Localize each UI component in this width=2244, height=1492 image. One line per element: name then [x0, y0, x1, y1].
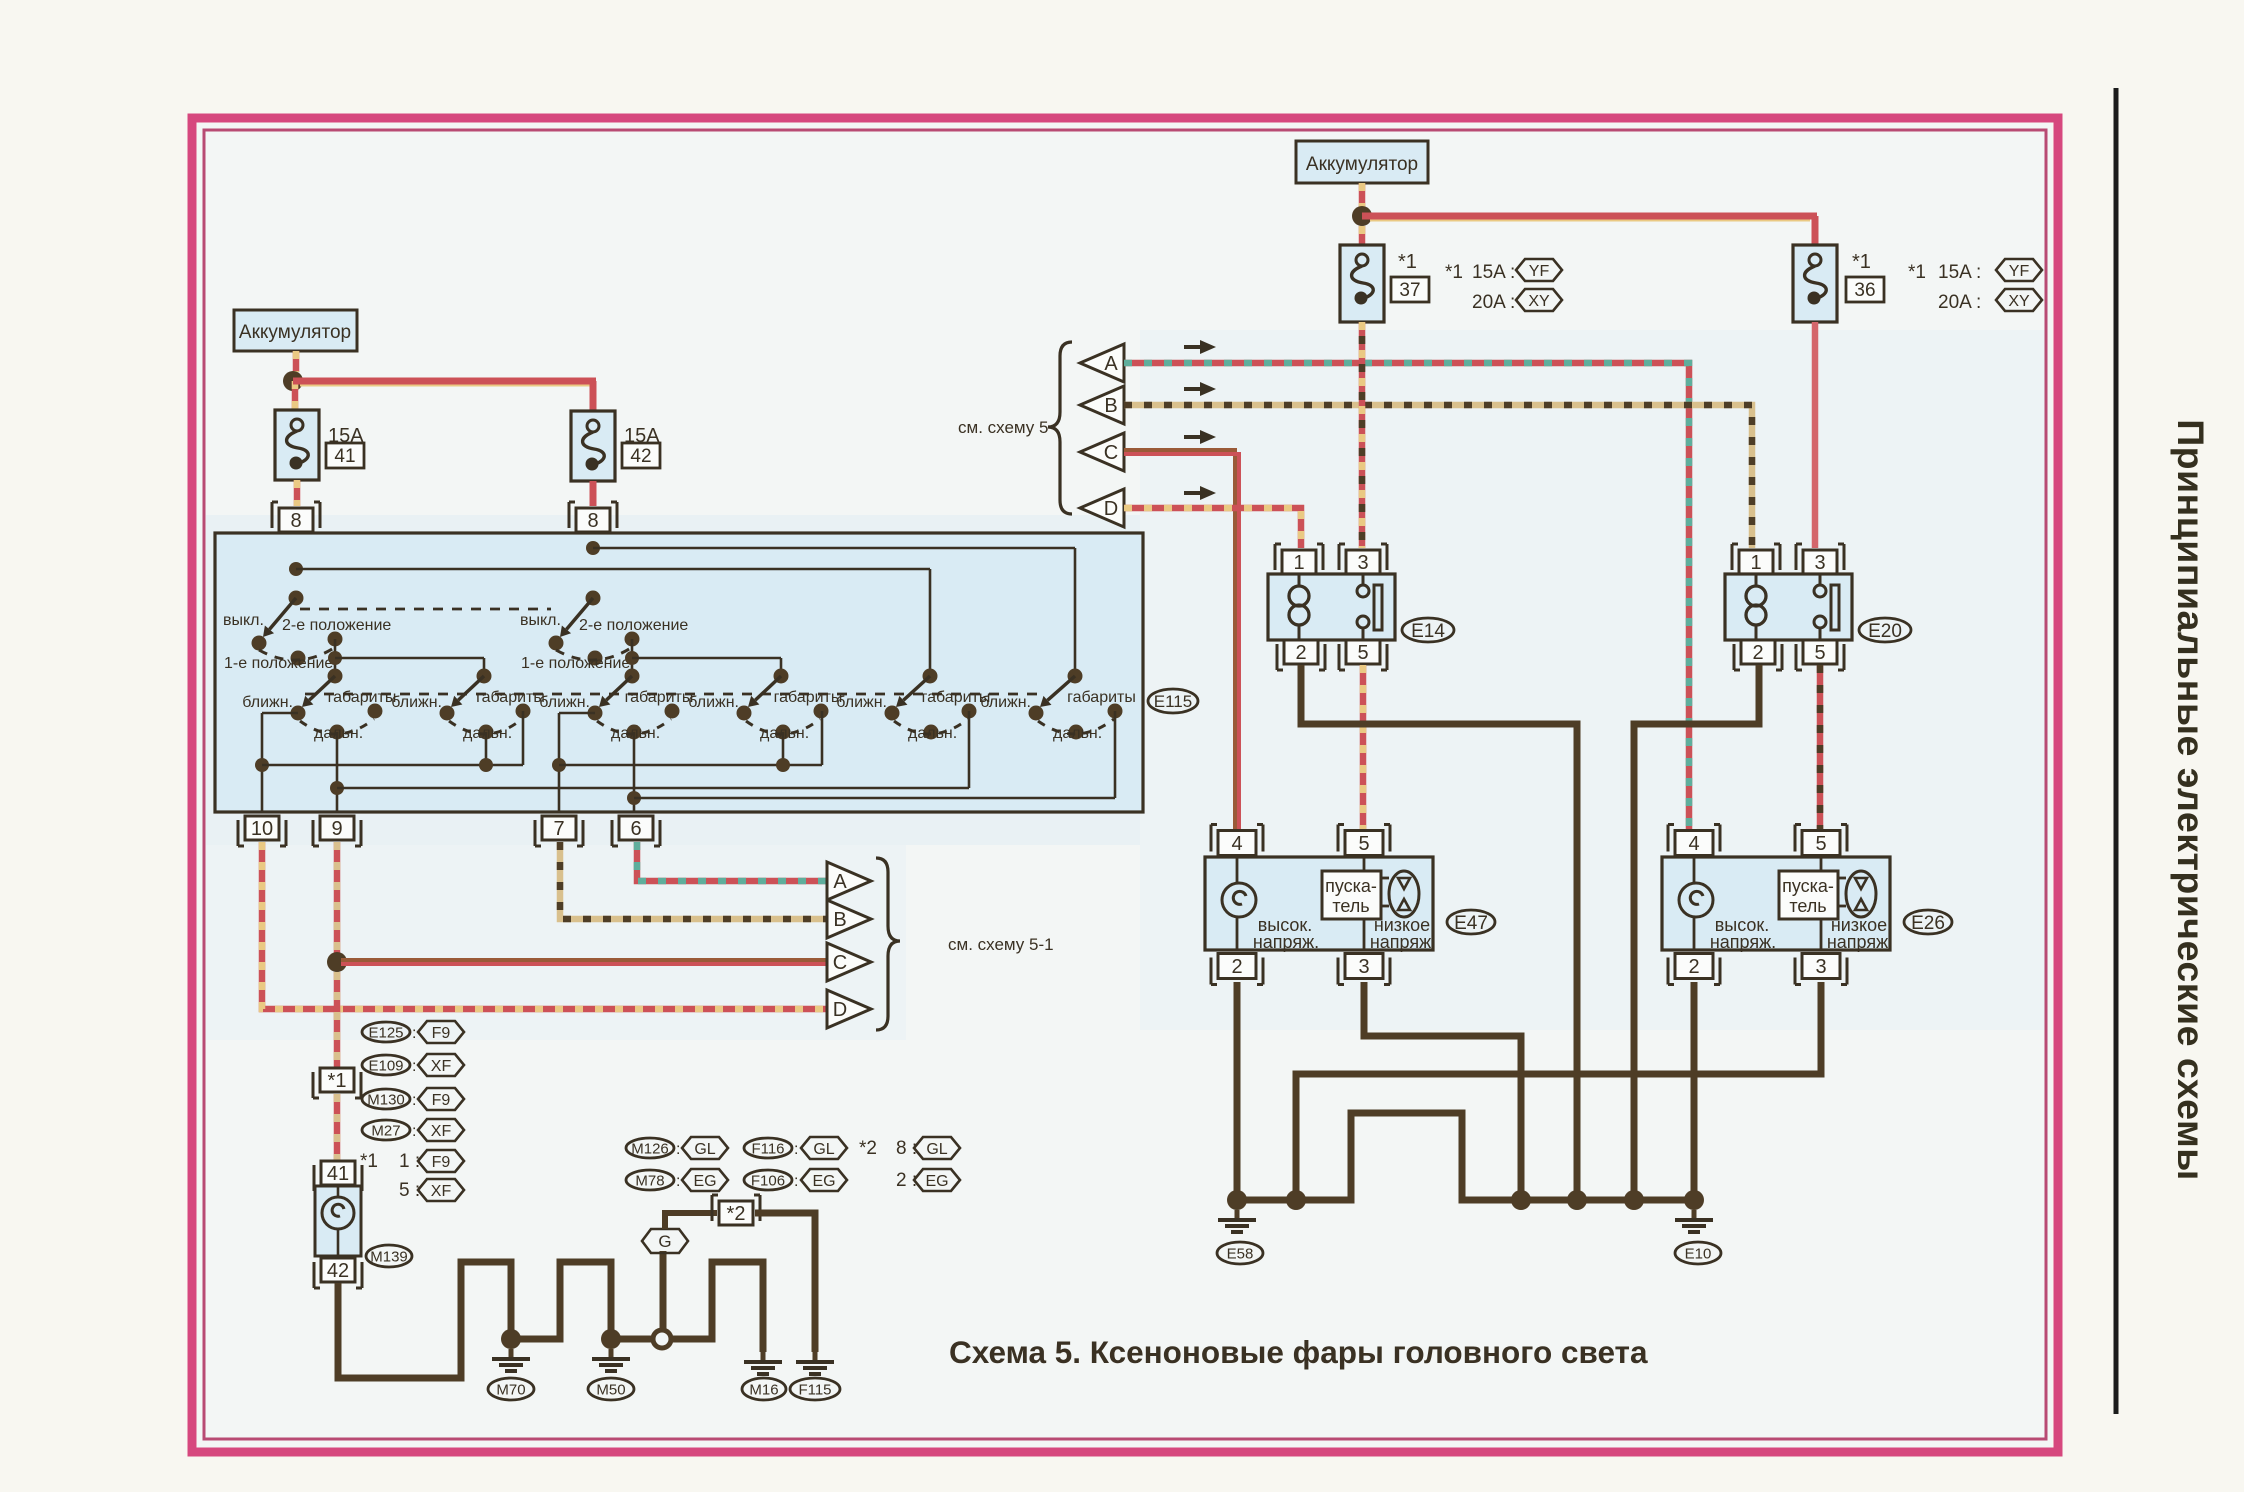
svg-text:M139: M139 [370, 1248, 408, 1265]
dashed throw arc upper switch [556, 646, 634, 660]
contact 2-е положение [328, 632, 343, 647]
svg-text:C: C [1104, 442, 1118, 464]
group 3 contact габариты [665, 704, 680, 719]
group 4 contact ближн. [737, 706, 752, 721]
svg-text:2-е положение: 2-е положение [579, 617, 688, 634]
xenon unit E26 box [1662, 857, 1890, 950]
svg-text:выкл.: выкл. [520, 612, 561, 629]
wire connector 8 into switch unit [295, 532, 298, 598]
node on connector6 column [627, 791, 641, 805]
svg-text:пуска-: пуска- [1325, 876, 1377, 896]
svg-text:E20: E20 [1868, 621, 1902, 642]
svg-text:F9: F9 [432, 1154, 451, 1171]
svg-text:2: 2 [1295, 642, 1306, 664]
svg-text:37: 37 [1399, 280, 1420, 301]
svg-text:M16: M16 [749, 1381, 778, 1398]
connector 42 of lamp M139 [321, 1258, 355, 1282]
svg-text:1: 1 [1293, 552, 1304, 574]
svg-text:E10: E10 [1685, 1245, 1712, 1262]
relay E14 label [1402, 618, 1454, 642]
wire connector 9 down (striped red/tan) [334, 842, 341, 962]
reference E109 : XF [362, 1055, 410, 1075]
svg-text:ближн.: ближн. [836, 694, 887, 711]
svg-text:6: 6 [630, 818, 641, 840]
svg-text:GL: GL [813, 1141, 834, 1158]
connector pin 8 (left column) [279, 508, 313, 532]
relay E20 label [1859, 618, 1911, 642]
svg-text:2: 2 [1231, 956, 1242, 978]
wire 2-е contact to group3 pivot [631, 639, 634, 676]
reference M130 : F9 [362, 1089, 410, 1109]
relay E14 pin 5 [1346, 640, 1380, 664]
group 6 contact ближн. [1029, 706, 1044, 721]
svg-text:M130: M130 [367, 1091, 405, 1108]
svg-text:E109: E109 [368, 1057, 403, 1074]
label E10 [1675, 1242, 1721, 1264]
wire fuse 42 to connector 8 right [590, 481, 597, 506]
ground bus node E20-2 column [1624, 1190, 1644, 1210]
wire ring up to G node [660, 1251, 667, 1330]
svg-text:4: 4 [1231, 833, 1242, 855]
group 4 contact дальн. [776, 725, 791, 740]
svg-text:2: 2 [1752, 642, 1763, 664]
relay E20 coil [1755, 574, 1758, 585]
wire A to xenon unit E26 pin 4 (striped red/teal) [1124, 363, 1689, 830]
svg-text:XF: XF [431, 1183, 452, 1200]
connector pin 7 [542, 816, 576, 840]
svg-text:5: 5 [1357, 642, 1368, 664]
svg-text:пуска-: пуска- [1782, 876, 1834, 896]
fuse F37 number box 37 [1391, 277, 1429, 302]
wire M70 to M50 [517, 1262, 611, 1339]
svg-text:дальн.: дальн. [1053, 725, 1102, 742]
open junction ring [653, 1330, 671, 1348]
connector pin 10 [245, 816, 279, 840]
svg-text:F115: F115 [798, 1381, 831, 1398]
wire junction to triangle C (red/brown pair) [341, 958, 826, 962]
wire *2 to F115 ground [755, 1213, 815, 1352]
svg-text:A: A [833, 871, 847, 893]
svg-text:*2: *2 [859, 1138, 877, 1159]
svg-text:1-е положение: 1-е положение [521, 655, 630, 672]
svg-text:*1: *1 [1398, 251, 1417, 273]
xenon E47 igniter box (пускатель) [1363, 857, 1366, 871]
junction node right battery [1352, 206, 1372, 226]
ground symbol F115 [813, 1352, 818, 1361]
xenon unit E26 pin 5 [1802, 831, 1840, 856]
svg-text::: : [676, 1173, 680, 1190]
svg-text:F106: F106 [751, 1172, 785, 1189]
node дальн-g2 on bus [479, 758, 493, 772]
svg-text:15A :: 15A : [1472, 262, 1515, 283]
wire E47 pin3 to ground bus [1364, 982, 1521, 1200]
connector *1 [320, 1068, 354, 1092]
group 1 contact габариты [368, 704, 383, 719]
svg-text:2: 2 [1688, 956, 1699, 978]
diagram inner background [197, 123, 2052, 1448]
connector *2 [719, 1201, 753, 1225]
svg-text:8: 8 [587, 510, 598, 532]
svg-text:напряж.: напряж. [1253, 932, 1319, 952]
ground symbol E10 [1692, 1210, 1697, 1219]
bus to group4 pivot [632, 657, 781, 660]
svg-text:GL: GL [694, 1141, 715, 1158]
group 5 dashed throw arc [894, 719, 968, 734]
svg-text:тель: тель [1332, 896, 1369, 916]
svg-text:42: 42 [630, 446, 651, 467]
svg-text::: : [676, 1141, 680, 1158]
svg-text:дальн.: дальн. [611, 725, 660, 742]
group 3 dashed throw arc [597, 719, 671, 734]
light switch unit E115 box [215, 533, 1143, 812]
sidebar separator line [2114, 88, 2119, 1414]
relay E14 pin 1 [1282, 550, 1316, 574]
xenon E26 lamp symbol [1693, 857, 1696, 883]
svg-text:напряж.: напряж. [1827, 932, 1893, 952]
svg-text:Аккумулятор: Аккумулятор [1306, 154, 1418, 175]
ground symbol M16 [761, 1352, 766, 1361]
ground bus node E14-2 column [1567, 1190, 1587, 1210]
svg-text:41: 41 [327, 1163, 349, 1185]
curly brace for outputs A-D [876, 858, 900, 1030]
label F115 [790, 1378, 840, 1400]
wire fuse 37 to relay E14 pin 3 (striped red/yellow/black) [1359, 322, 1366, 548]
connector pin 9 [320, 816, 354, 840]
relay E14 pin 3 [1346, 550, 1380, 574]
svg-text:E125: E125 [368, 1024, 403, 1041]
svg-text:габариты: габариты [1067, 689, 1136, 706]
xenon unit E26 pin 4 [1675, 831, 1713, 856]
xenon E26 arc tube symbol [1846, 871, 1876, 917]
svg-text::: : [412, 1123, 416, 1140]
connector pin 6 [619, 816, 653, 840]
fuse F42 [571, 411, 615, 481]
wire E47 pin2 to ground E58 [1234, 982, 1241, 1200]
group 2 dashed throw arc [449, 719, 522, 734]
bus ближн-g3 / дальн-g4 / габариты-g4 [559, 764, 822, 767]
xenon unit E26 pin 3 [1802, 954, 1840, 979]
svg-text:20A :: 20A : [1938, 292, 1981, 313]
parking lamp M139 box [315, 1186, 361, 1256]
wire fuse 41 to connector 8 left [294, 480, 301, 506]
ground symbol E58 [1235, 1210, 1240, 1219]
headlamp switch group 1 pivot [328, 669, 343, 684]
fuse F42 number box 42 [622, 443, 660, 468]
label E58 [1217, 1242, 1263, 1264]
group 6 contact габариты [1108, 704, 1123, 719]
svg-text:8: 8 [290, 510, 301, 532]
svg-text:габариты: габариты [328, 689, 397, 706]
svg-text:36: 36 [1854, 280, 1875, 301]
xenon unit E47 pin 2 [1218, 954, 1256, 979]
svg-text:F9: F9 [432, 1025, 451, 1042]
svg-text:1: 1 [1750, 552, 1761, 574]
relay E20 pin 3 [1803, 550, 1837, 574]
wire relay E14 pin5 to xenon E47 pin5 (striped red/yellow) [1360, 665, 1367, 830]
fuse F37 [1340, 245, 1384, 322]
svg-text:XY: XY [2008, 293, 2030, 310]
wire ближн group1 to connector 10 column [262, 712, 298, 715]
wire 2-е contact to group1 pivot [334, 639, 337, 676]
ground bus node E10 column [1684, 1190, 1704, 1210]
direction arrow wire B [1184, 387, 1202, 391]
headlamp switch group 6 pivot [1068, 669, 1083, 684]
svg-text:Схема 5. Ксеноновые фары голов: Схема 5. Ксеноновые фары головного света [949, 1334, 1648, 1370]
bus ближн-g1 / дальн-g2 / габариты-g2 [262, 764, 523, 767]
wire дальн group2 down to bus [485, 732, 488, 765]
group 4 dashed throw arc [746, 719, 820, 734]
group 3 contact ближн. [588, 706, 603, 721]
battery box left (Аккумулятор) [234, 310, 357, 351]
svg-text:ближн.: ближн. [539, 694, 590, 711]
wire junction to fuse 36 (red) [1362, 213, 1817, 220]
bus to group2 pivot [335, 657, 484, 660]
svg-text::: : [412, 1058, 416, 1075]
contact 2-е положение [625, 632, 640, 647]
group 4 contact габариты [814, 704, 829, 719]
svg-text:9: 9 [331, 818, 342, 840]
svg-text:1-е положение: 1-е положение [224, 655, 333, 672]
bus дальн-g1 to габариты-g5 [337, 787, 969, 790]
svg-text:M78: M78 [635, 1172, 664, 1189]
node on column 8-left [289, 562, 303, 576]
relay E20 box [1725, 574, 1852, 640]
svg-text:5: 5 [1358, 833, 1369, 855]
svg-text:ближн.: ближн. [980, 694, 1031, 711]
ground symbol M50 [609, 1349, 614, 1358]
svg-text:15A :: 15A : [1938, 262, 1981, 283]
svg-text:YF: YF [1529, 263, 1550, 280]
relay E14 box [1268, 574, 1395, 640]
group 6 dashed throw arc [1038, 719, 1114, 734]
upper switch pivot (column x=296) [289, 591, 304, 606]
wire дальн group3 to connector 6 column [633, 732, 636, 812]
ground wire path from 42 to M70 [338, 1262, 511, 1378]
svg-text::: : [412, 1025, 416, 1042]
wire connector 7 to triangle B (striped tan/black) [560, 842, 826, 919]
svg-text:ближн.: ближн. [391, 694, 442, 711]
svg-text:габариты: габариты [774, 689, 843, 706]
headlamp switch group 4 pivot [774, 669, 789, 684]
group 6 contact дальн. [1069, 725, 1084, 740]
wire junction to fuse 37 [1359, 226, 1366, 245]
svg-text:XY: XY [1528, 293, 1550, 310]
svg-text:3: 3 [1814, 552, 1825, 574]
battery box right (Аккумулятор) [1296, 141, 1428, 183]
label M70 [488, 1378, 534, 1400]
svg-text:41: 41 [334, 446, 355, 467]
svg-text:Аккумулятор: Аккумулятор [239, 322, 351, 343]
svg-text:3: 3 [1357, 552, 1368, 574]
svg-text:выкл.: выкл. [223, 612, 264, 629]
svg-text:*1: *1 [1852, 251, 1871, 273]
direction arrow wire A [1184, 345, 1202, 349]
wire connector 6 to triangle A (striped red/teal) [637, 842, 826, 881]
off contact (выкл.) [252, 636, 267, 651]
wire connector 8 right into switch unit [592, 532, 595, 598]
svg-text:EG: EG [812, 1173, 835, 1190]
svg-text:A: A [1104, 353, 1118, 375]
group 5 contact ближн. [885, 706, 900, 721]
wire дальн group1 to connector 9 column [336, 732, 339, 812]
svg-text:F116: F116 [751, 1140, 784, 1157]
node on connector9 column [330, 781, 344, 795]
svg-text:*1: *1 [1908, 262, 1926, 283]
dashed throw arc upper switch [259, 646, 337, 660]
dashed link between upper switch arms [300, 608, 551, 611]
input triangle C [1080, 433, 1124, 471]
svg-text:5: 5 [1814, 642, 1825, 664]
svg-text:напряж.: напряж. [1370, 932, 1436, 952]
connector pin 8 (right column) [576, 508, 610, 532]
triangle output A [827, 862, 871, 900]
svg-text:EG: EG [925, 1173, 948, 1190]
lamp symbol M139 [337, 1186, 340, 1196]
group 2 contact ближн. [440, 706, 455, 721]
svg-text:5: 5 [1815, 833, 1826, 855]
svg-text:M27: M27 [371, 1122, 400, 1139]
wire junction to fuse 42 (red) [293, 378, 596, 385]
node feeding group2 [328, 651, 342, 665]
relay E20 pin 5 [1803, 640, 1837, 664]
svg-text:дальн.: дальн. [314, 725, 363, 742]
svg-text:C: C [833, 952, 847, 974]
svg-text:3: 3 [1358, 956, 1369, 978]
headlamp switch group 2 pivot [477, 669, 492, 684]
upper switch pivot (column x=593) [586, 591, 601, 606]
svg-text:E26: E26 [1911, 913, 1945, 934]
xenon unit E26 pin 2 [1675, 954, 1713, 979]
curly brace inputs A-D [1048, 342, 1072, 514]
reference M27 : XF [362, 1120, 410, 1140]
group 1 contact дальн. [330, 725, 345, 740]
svg-text:EG: EG [693, 1173, 716, 1190]
node дальн-g4 on bus [776, 758, 790, 772]
triangle output C [827, 943, 871, 981]
relay E20 pin 1 [1739, 550, 1773, 574]
headlamp switch group 5 pivot [923, 669, 938, 684]
wire fuse 36 to relay E20 pin 3 (red) [1812, 322, 1819, 548]
direction arrow wire C [1184, 435, 1202, 439]
svg-text:20A :: 20A : [1472, 292, 1515, 313]
relay E20 pin 2 [1741, 640, 1775, 664]
svg-text:4: 4 [1688, 833, 1699, 855]
xenon unit E47 pin 5 [1345, 831, 1383, 856]
svg-text:ближн.: ближн. [242, 694, 293, 711]
svg-text::: : [794, 1173, 798, 1190]
svg-text:GL: GL [926, 1141, 947, 1158]
svg-text:XF: XF [431, 1058, 452, 1075]
svg-text:YF: YF [2009, 263, 2030, 280]
middle contact 1-е положение [291, 651, 306, 666]
group 2 contact габариты [516, 704, 531, 719]
wire connector *1 to connector 41 [334, 1094, 341, 1161]
svg-text:дальн.: дальн. [463, 725, 512, 742]
svg-text:B: B [833, 909, 846, 931]
svg-text:дальн.: дальн. [760, 725, 809, 742]
wire battery-left to junction [293, 351, 300, 372]
riser to габариты group2 [522, 711, 525, 765]
wire relay E14 pin2 to ground bus (dark) [1301, 665, 1577, 1200]
fuse F41 number box 41 [326, 443, 364, 468]
wire C to xenon unit E47 pin 4 (brown/red) [1124, 450, 1235, 830]
node G hexagon [642, 1229, 688, 1253]
wire relay E20 pin5 to xenon E26 pin5 (striped red/black) [1817, 665, 1824, 830]
svg-text:42: 42 [327, 1260, 349, 1282]
svg-text:2-е положение: 2-е положение [282, 617, 391, 634]
svg-text:габариты: габариты [625, 689, 694, 706]
svg-text:см. схему 5: см. схему 5 [958, 418, 1048, 437]
node feeding group4 [625, 651, 639, 665]
svg-text:дальн.: дальн. [908, 725, 957, 742]
group 5 contact габариты [962, 704, 977, 719]
bus from 8-right to group6 pivot [593, 547, 1075, 550]
wire дальн group4 down to bus [782, 732, 785, 765]
group 5 contact дальн. [924, 725, 939, 740]
svg-text:*1: *1 [360, 1151, 378, 1172]
wire E26 pin3 to ground bus (long left run) [1296, 982, 1821, 1200]
connector 41 of lamp M139 [321, 1161, 355, 1185]
headlamp switch group 3 pivot [625, 669, 640, 684]
svg-text:7: 7 [553, 818, 564, 840]
svg-text:Принципиальные электрические с: Принципиальные электрические схемы [2170, 419, 2212, 1181]
relay E14 pin 2 [1284, 640, 1318, 664]
reference F116 : GL [744, 1138, 792, 1158]
group 1 dashed throw arc [300, 719, 374, 734]
relay E14 coil [1298, 574, 1301, 585]
xenon unit E47 pin 4 [1218, 831, 1256, 856]
riser to габариты group4 [821, 711, 824, 765]
wire relay E20 pin2 to ground bus (dark) [1634, 665, 1759, 1200]
input triangle B [1080, 386, 1124, 424]
svg-text:D: D [1104, 498, 1118, 520]
reference F106 : EG [744, 1170, 792, 1190]
lamp M139 label [366, 1245, 412, 1267]
fuse F41 [275, 410, 319, 480]
svg-text:XF: XF [431, 1123, 452, 1140]
ground bus node E58 column [1227, 1190, 1247, 1210]
middle contact 1-е положение [588, 651, 603, 666]
wire E26 pin2 to ground E10 [1691, 982, 1698, 1200]
xenon E26 igniter box (пускатель) [1820, 857, 1823, 871]
wire B to relay E20 pin 1 (striped tan/black) [1124, 405, 1752, 548]
svg-text:тель: тель [1789, 896, 1826, 916]
reference E125 : F9 [362, 1022, 410, 1042]
input triangle A (from scheme 5) [1080, 344, 1124, 382]
inner pink border frame [204, 130, 2046, 1439]
relay E20 contact [1819, 574, 1822, 585]
svg-text:M126: M126 [631, 1140, 669, 1157]
svg-text:E47: E47 [1454, 913, 1488, 934]
ground bus node E47-3 column [1511, 1190, 1531, 1210]
switch unit E115 label [1148, 689, 1198, 713]
wire junction 9-column down to connector *1 [334, 972, 341, 1067]
fuse F36 [1793, 245, 1837, 322]
svg-text:10: 10 [251, 818, 273, 840]
xenon unit E26 label [1904, 910, 1952, 934]
svg-text:E14: E14 [1411, 621, 1445, 642]
wire M50 to junction ring [618, 1336, 652, 1343]
outer pink border frame [192, 118, 2058, 1452]
svg-text:*2: *2 [727, 1203, 746, 1225]
junction node left battery [283, 371, 303, 391]
group 2 contact дальн. [479, 725, 494, 740]
ground bus right section [1237, 1113, 1694, 1200]
ground node M70 [501, 1329, 521, 1349]
svg-text:D: D [833, 999, 847, 1021]
group 3 contact дальн. [627, 725, 642, 740]
reference M78 : EG [626, 1170, 674, 1190]
